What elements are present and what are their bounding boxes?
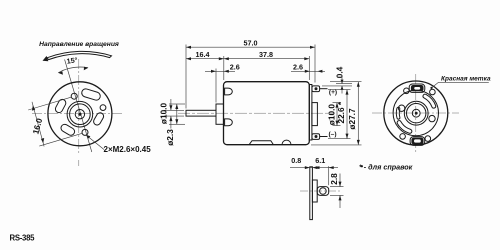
dim 0.4 line with outside arrows	[341, 76, 343, 94]
svg-text:Направление вращения: Направление вращения	[39, 41, 119, 48]
brush cap bottom outline	[410, 137, 425, 146]
svg-text:37.8: 37.8	[259, 50, 273, 59]
dim 16.4 line	[186, 58, 224, 60]
svg-text:0.8: 0.8	[291, 156, 301, 165]
dim 0.8/6.1 line	[290, 167, 338, 169]
center dot	[415, 112, 418, 115]
endcap circle	[393, 90, 438, 135]
shaft center dot	[78, 113, 81, 116]
vertical centerline	[78, 59, 80, 166]
dim 16.0 dimension line	[32, 102, 44, 147]
red mark leader	[432, 82, 489, 88]
terminal bottom tab line	[320, 136, 328, 138]
dim 2.6 left line	[205, 70, 235, 72]
bottom semicircular bump	[282, 140, 291, 144]
rotation direction arrow band	[47, 51, 112, 59]
screw hole bottom M2.6	[82, 129, 88, 135]
dim phi2.3 ext lines	[164, 109, 184, 111]
svg-text:0.4: 0.4	[334, 66, 344, 78]
terminal top tab line	[320, 88, 328, 90]
15deg arc right arrow	[84, 67, 89, 70]
dim 6.1 arrows	[315, 166, 320, 169]
rim hole 128deg	[404, 88, 410, 94]
leader arrowhead	[86, 135, 90, 139]
dim phi10 left line with arrows	[176, 104, 178, 124]
dim phi27.7 ext lines	[330, 81, 362, 83]
flange plate	[310, 167, 313, 220]
dim 16.0 arrow bottom	[41, 138, 44, 143]
mounting-hole axis centerline 105deg	[65, 60, 92, 153]
svg-text:ø10.0: ø10.0	[158, 103, 168, 125]
hub inner ring	[70, 104, 91, 125]
svg-text:57.0: 57.0	[244, 39, 258, 48]
ext line body right top	[308, 56, 310, 80]
svg-text:* - для справок: * - для справок	[359, 163, 413, 172]
rim hole 226deg	[400, 134, 406, 140]
hub outer ring	[67, 101, 93, 127]
shaft centerline	[178, 112, 334, 114]
svg-text:2.6: 2.6	[293, 63, 303, 72]
svg-text:2×M2.6×0.45: 2×M2.6×0.45	[104, 145, 152, 154]
brush cap bottom dark body	[411, 138, 423, 145]
rim hole 52deg	[430, 89, 436, 95]
vertical centerline	[415, 74, 417, 152]
dim 2.6 right arrows (outside)	[305, 70, 310, 73]
vent slot upper-left	[54, 98, 67, 114]
dim phi10 right line	[336, 103, 338, 126]
arc slot upper-right	[423, 94, 436, 108]
brush cap top dark body	[411, 85, 424, 91]
arc slot lower-left	[397, 121, 412, 134]
brush cap top white slit	[414, 87, 420, 90]
dim 57.0 line	[186, 46, 315, 48]
screw hole top M2.6	[71, 93, 77, 99]
bottom vent slot (trapezoid)	[249, 141, 273, 145]
vent slot bottom-left	[60, 123, 76, 137]
dim 37.8 line	[224, 58, 309, 60]
dim phi2.3 line with outside arrows	[170, 99, 172, 129]
horizontal centerline	[32, 113, 124, 115]
endcap flange	[309, 85, 312, 141]
vent slot top	[81, 88, 102, 101]
svg-text:2.6: 2.6	[230, 63, 240, 72]
terminal top hole	[315, 87, 318, 90]
ext line shaft tip	[185, 45, 187, 109]
terminal hole	[320, 188, 327, 195]
dim 2.8 ext lines	[330, 186, 344, 188]
dim 37.8 arrows	[224, 57, 229, 60]
dim 16.0 extension line 1	[28, 97, 71, 110]
screw hole SE	[429, 115, 435, 121]
dim 0.8 arrows outside	[305, 166, 310, 169]
motor body	[224, 82, 310, 145]
dim 22.6 ext lines	[328, 89, 351, 91]
terminal tab	[317, 187, 329, 196]
small hole right	[100, 105, 106, 111]
dim 2.6 right line	[291, 70, 325, 72]
terminal top	[312, 86, 320, 92]
shaft circle	[75, 110, 84, 119]
leader 2xM2.6	[86, 135, 104, 150]
15deg arc left arrow	[58, 71, 63, 74]
vent slot right-bottom	[92, 112, 105, 127]
rim hole 309deg	[425, 136, 431, 142]
front face outer circle	[48, 82, 112, 146]
shaft	[186, 110, 216, 116]
dim phi10 left ext lines	[169, 103, 185, 105]
shaft circle	[412, 109, 420, 117]
ext line endcap right / 57 end	[314, 45, 316, 83]
terminal bottom	[312, 134, 320, 140]
dim 2.6 left arrows (outside)	[211, 70, 216, 73]
svg-text:15°: 15°	[66, 55, 78, 65]
terminal bottom hole	[315, 135, 318, 138]
brush cap bottom white slit	[414, 139, 421, 142]
dim phi10 right ext lines	[333, 102, 341, 104]
svg-text:6.1: 6.1	[315, 156, 325, 165]
hub ring inner	[407, 104, 426, 123]
svg-text:ø10.0: ø10.0	[326, 104, 336, 126]
svg-text:Красная метка: Красная метка	[441, 76, 491, 83]
brush block	[312, 180, 317, 202]
dim 57.0 arrows	[186, 46, 191, 49]
dim phi27.7 line	[357, 82, 359, 145]
svg-text:(–): (–)	[328, 131, 336, 138]
centerline	[300, 190, 342, 192]
rotation arrowhead	[43, 56, 49, 61]
arc slot west	[396, 107, 400, 119]
dim 16.4 arrows	[186, 57, 191, 60]
brush cap top outline	[409, 84, 425, 92]
dim 0.4 ext lines	[336, 83, 352, 85]
endcap boss	[312, 103, 318, 126]
svg-text:(+): (+)	[329, 89, 337, 96]
dim 22.6 line	[346, 90, 348, 139]
dim 2.8 line with outside arrows	[339, 174, 341, 209]
screw boss top (D shape)	[225, 88, 233, 95]
svg-text:ø2.3: ø2.3	[165, 129, 175, 146]
hub ring outer	[404, 101, 428, 125]
svg-text:ø27.7: ø27.7	[347, 108, 357, 130]
footnote asterisk dot	[361, 165, 363, 167]
ext line collar left	[215, 69, 217, 103]
ext line body left	[223, 56, 225, 80]
dim 16.0 arrow top	[32, 105, 35, 110]
horizontal centerline	[372, 112, 459, 114]
front bearing collar	[216, 104, 224, 124]
svg-text:16.4: 16.4	[196, 50, 210, 59]
svg-text:22.6 *: 22.6 *	[336, 101, 346, 123]
dim 16.0 extension line 2	[39, 133, 82, 146]
screw hole NW	[398, 105, 404, 111]
svg-text:RS-385: RS-385	[10, 234, 36, 243]
15deg angle arc	[58, 67, 88, 73]
ext line terminal tip	[328, 166, 330, 185]
screw boss bottom (D shape)	[225, 119, 233, 126]
rear outer circle	[384, 81, 448, 145]
leader end dot	[430, 87, 432, 89]
svg-text:2.8: 2.8	[329, 173, 339, 185]
